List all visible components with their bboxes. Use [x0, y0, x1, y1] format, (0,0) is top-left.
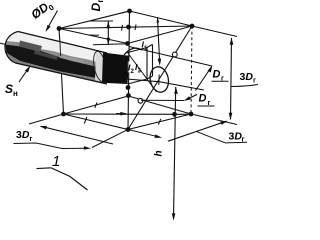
svg-text:D: D [199, 93, 207, 105]
bottom-right S' extension with arrow [128, 130, 160, 138]
bottom-right 3Dg dim line [168, 121, 226, 141]
top Dg dimension upper ext [89, 20, 113, 22]
corner dot E [190, 24, 195, 29]
box vertical edge W-W' upper [59, 29, 60, 45]
OD0 leader [47, 11, 58, 31]
S-S' edge segment over notch [127, 60, 129, 73]
top Dg label rotated [89, 0, 105, 12]
box vertical edge N-S-S' [128, 11, 130, 130]
top face center dot [126, 25, 131, 30]
Dg dimension arrow upper [196, 67, 212, 91]
right 3Dg label shelf [231, 85, 258, 87]
crater ellipse [148, 65, 171, 94]
svg-text:h: h [154, 150, 165, 156]
OD0 label [28, 0, 56, 23]
svg-text:3D: 3D [240, 71, 254, 83]
inner box face diagonal [128, 53, 157, 93]
corner dot N [127, 9, 132, 14]
svg-text:г: г [96, 0, 105, 3]
svg-text:г: г [30, 136, 33, 143]
bottom-right label shelf [225, 141, 247, 144]
right 3Dg extension top from E [192, 26, 237, 37]
top Dg dimension lower ext [93, 44, 128, 45]
white notch for labels [127, 61, 141, 73]
box top face edge N-E [130, 11, 193, 26]
box bottom face edge S'-W' [64, 114, 129, 130]
tangent line T3 [141, 99, 184, 101]
bottom-right label leader [196, 131, 225, 143]
Dg dimension arrow lower [186, 95, 197, 100]
inner box bottom edge [128, 79, 148, 84]
inner box top back edge [147, 45, 153, 48]
right 3Dg extension bottom from E' [191, 114, 237, 125]
tick on bottom edge W'-S' [84, 117, 87, 124]
svg-text:D: D [213, 69, 221, 81]
box bottom face diagonal W'-E' [64, 113, 192, 115]
right 3Dg dimension line [231, 38, 232, 120]
Sn arrow [19, 68, 29, 83]
svg-text:г: г [242, 137, 245, 144]
box bottom face edge E'-S' [128, 114, 191, 130]
Dg lower label leader shelf [198, 105, 215, 107]
corner dot W' [61, 112, 66, 117]
box vertical edge W-W' lower [62, 74, 64, 114]
box W edge visible over rod [59, 42, 62, 56]
node circle upper on diagonal [172, 52, 177, 57]
corner dot S' [126, 127, 131, 132]
corner dot E' [189, 112, 194, 117]
svg-text:3D: 3D [229, 131, 243, 143]
arc on inner box top [124, 48, 142, 55]
main diagonal E to S' [128, 26, 192, 130]
svg-text:D: D [89, 3, 103, 12]
arrow on bottom diagonal pointing right at center [116, 113, 126, 115]
hole axis line from top edge to ellipse [158, 18, 160, 60]
tangent line T2 lower [127, 79, 204, 90]
box bottom face edge N'-E' [128, 96, 191, 114]
node circle lower on diagonal [138, 98, 143, 103]
bottom-left 3Dg dim line [41, 126, 113, 144]
inner box top edge [128, 48, 148, 53]
inner box bottom back edge [147, 76, 153, 79]
corner dot N' [126, 93, 131, 98]
tick on bottom edge S'-E' [158, 119, 160, 125]
top Dg dimension line [107, 21, 109, 45]
rod axis line stub [0, 43, 11, 45]
small arrow at top of axis [156, 17, 159, 23]
rod black end block [102, 53, 130, 85]
svg-text:н: н [13, 89, 18, 98]
corner dot W [57, 26, 62, 31]
svg-text:г: г [253, 78, 256, 85]
box top face edge S-W [59, 29, 128, 44]
svg-text:г: г [221, 76, 224, 83]
tick on top diagonal right of center [135, 25, 136, 31]
box top face diagonal W-E [59, 26, 192, 29]
h dimension line [174, 87, 176, 219]
figure leader line [52, 168, 88, 190]
rod section ellipse [91, 50, 108, 82]
tick on top diagonal left of center [122, 25, 123, 31]
box bottom face edge W'-N' [64, 96, 129, 114]
box vertical edge E-E' dashed [191, 26, 192, 114]
svg-text:ØD: ØD [28, 0, 51, 22]
box top face edge W-N [59, 11, 130, 29]
cylinder rod body [5, 32, 109, 85]
bottom-left lower leader line [14, 143, 89, 149]
tick on bottom edge W'-N' [95, 103, 97, 108]
h label rotated [154, 150, 165, 156]
axis down arrowhead at ellipse top [158, 59, 162, 66]
svg-text:г: г [208, 100, 211, 107]
crater center cross vertical [158, 75, 160, 86]
bottom-left W' extension [29, 114, 64, 124]
box top face edge E-S [128, 26, 193, 44]
Dg upper label leader shelf [212, 80, 229, 82]
svg-text:3D: 3D [16, 129, 30, 141]
corner dot S [125, 41, 130, 46]
inner box right vertical back [152, 45, 154, 77]
inner box right vertical front [146, 48, 148, 80]
tangent line T1 upper [129, 47, 212, 67]
inner box bottom dot [126, 85, 131, 90]
svg-text:1: 1 [52, 153, 60, 170]
figure number underline [37, 167, 52, 170]
svg-text:S: S [5, 82, 13, 96]
dot on bottom diagonal at h axis [172, 112, 177, 117]
